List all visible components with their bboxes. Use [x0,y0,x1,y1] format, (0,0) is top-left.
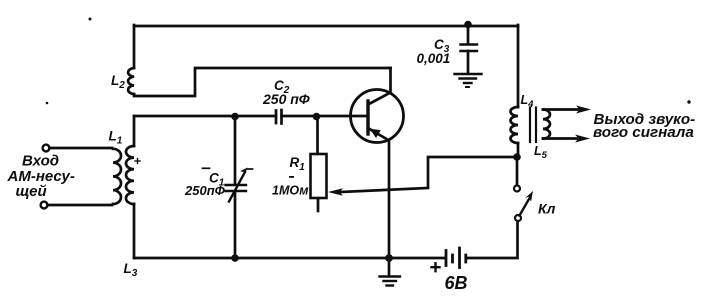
svg-text:Вход: Вход [22,153,59,170]
svg-text:щей: щей [16,183,47,200]
svg-text:L4: L4 [521,93,535,110]
svg-text:L2: L2 [111,73,125,91]
svg-text:250 пФ: 250 пФ [262,91,310,107]
svg-text:Кл: Кл [538,201,556,217]
svg-text:L5: L5 [534,144,548,161]
svg-text:вого сигнала: вого сигнала [593,124,694,141]
svg-text:250пФ: 250пФ [184,183,226,198]
svg-text:L3: L3 [124,261,138,279]
svg-text:6В: 6В [445,273,468,293]
svg-text:1МОм: 1МОм [272,184,309,198]
svg-text:L1: L1 [109,129,123,147]
svg-text:0,001: 0,001 [417,51,451,66]
svg-text:R1: R1 [290,155,306,173]
